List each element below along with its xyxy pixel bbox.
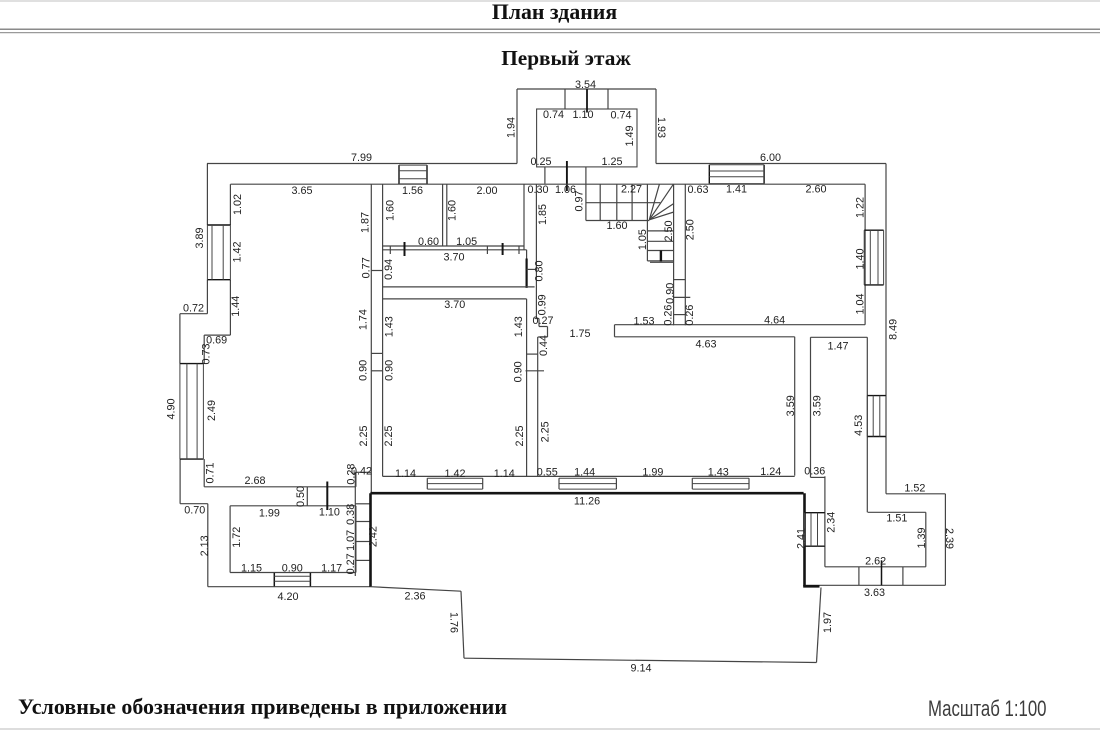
svg-text:0.70: 0.70: [184, 505, 205, 517]
wall: interior (2.68): [204, 486, 356, 488]
wall: right inner x867: [866, 337, 868, 512]
svg-text:9.14: 9.14: [630, 663, 651, 675]
svg-text:1.05: 1.05: [637, 229, 649, 250]
wall: right step out (1.52): [886, 493, 945, 495]
wall: room 1.51 bottom (2.62): [825, 566, 926, 568]
svg-text:1.72: 1.72: [231, 527, 243, 548]
svg-text:0.90: 0.90: [282, 563, 303, 575]
wall: room 1.99 bottom: [230, 572, 356, 574]
wall: room 1.51 right: [925, 512, 927, 567]
svg-text:0.36: 0.36: [804, 466, 825, 478]
stair winder diag 1: [649, 184, 659, 220]
tick: 0.50 door: [306, 487, 308, 506]
tick: porch center thick: [586, 89, 588, 113]
svg-text:1.93: 1.93: [655, 117, 667, 138]
svg-text:0.60: 0.60: [418, 236, 439, 248]
wall: room 3.70-2 top: [383, 298, 527, 300]
svg-text:0.38: 0.38: [345, 504, 357, 525]
terrace edge left (1.76): [461, 591, 464, 658]
stair mid line: [586, 202, 660, 204]
svg-text:2.34: 2.34: [826, 512, 838, 533]
svg-text:0.74: 0.74: [610, 110, 631, 122]
wall: top outer right of porch (6.00): [656, 163, 886, 165]
svg-text:0.50: 0.50: [295, 486, 307, 507]
wall: interior bottom line: [383, 475, 795, 477]
svg-text:2.25: 2.25: [383, 425, 395, 446]
wall: living left x537: [537, 337, 539, 476]
svg-text:0.90: 0.90: [358, 360, 370, 381]
svg-text:2.60: 2.60: [805, 184, 826, 196]
wall: room 2.00 right: [523, 184, 525, 250]
wall: left outer below window2: [179, 459, 181, 504]
window: top wall left (1.56 above): [398, 165, 400, 184]
wall: jog 0.42 h: [356, 471, 371, 473]
svg-text:1.10: 1.10: [572, 109, 593, 121]
wall: room 1.51 top: [868, 511, 926, 513]
svg-text:0.71: 0.71: [205, 462, 217, 483]
stair tread 2: [647, 240, 673, 242]
svg-text:2.62: 2.62: [865, 556, 886, 568]
svg-text:4.20: 4.20: [277, 591, 298, 603]
dim line x355: [354, 472, 356, 576]
svg-text:2.42: 2.42: [368, 526, 380, 547]
tick: 0.36 step: [811, 476, 825, 478]
wall: left outer lower: [207, 504, 209, 587]
wall: bottom outer left (4.20): [208, 586, 371, 588]
svg-text:4.53: 4.53: [853, 415, 865, 436]
svg-text:6.00: 6.00: [760, 152, 781, 164]
svg-text:4.90: 4.90: [166, 398, 178, 419]
wall: porch outer right: [655, 89, 657, 164]
svg-text:1.05: 1.05: [456, 236, 477, 248]
wall: left step out (0.72): [180, 313, 208, 315]
tick y353 left col: [371, 352, 382, 354]
svg-text:2.27: 2.27: [621, 184, 642, 196]
svg-text:2.36: 2.36: [404, 591, 425, 603]
svg-text:8.49: 8.49: [887, 319, 899, 340]
svg-text:Масштаб 1:100: Масштаб 1:100: [928, 696, 1047, 721]
window: south 1 (1.42): [426, 478, 428, 489]
svg-text:1.40: 1.40: [855, 248, 867, 269]
jog v x539: [538, 319, 540, 327]
wall: partition x382: [382, 184, 384, 476]
svg-text:0.27: 0.27: [532, 315, 553, 327]
wall: door jamb thick x526: [525, 259, 527, 288]
wall: inner step (0.69): [204, 334, 230, 336]
wall: room 1.47 left: [810, 337, 812, 477]
svg-text:1.99: 1.99: [259, 508, 280, 520]
wall: room 3.65 right side: [370, 184, 372, 493]
wall: left inner below window1: [229, 280, 231, 335]
wall: room 1.47 top: [811, 336, 868, 338]
window: left large (4.90): [180, 363, 204, 365]
tick bl 2: [355, 541, 370, 543]
tick rooms row d thick: [502, 243, 504, 255]
step divider: [881, 560, 883, 585]
stair riser 3: [631, 184, 633, 220]
svg-text:1.56: 1.56: [402, 185, 423, 197]
svg-text:1.44: 1.44: [574, 467, 595, 479]
wall: left outer upper: [206, 164, 208, 226]
tick y279: [674, 279, 686, 281]
terrace edge bottom (9.14): [464, 658, 817, 662]
wall thick: small bottom right: [803, 585, 819, 588]
svg-text:1.44: 1.44: [230, 296, 242, 317]
svg-text:1.02: 1.02: [232, 194, 244, 215]
svg-text:2.25: 2.25: [540, 421, 552, 442]
svg-text:2.25: 2.25: [514, 425, 526, 446]
window: south 3 (1.43): [691, 478, 693, 489]
terrace edge top (2.36): [371, 587, 462, 592]
svg-text:3.54: 3.54: [575, 79, 596, 91]
jog h y326 (0.27): [539, 326, 548, 328]
stair flight bottom: [586, 220, 649, 222]
svg-text:0.90: 0.90: [665, 283, 677, 304]
svg-text:1.14: 1.14: [395, 468, 416, 480]
svg-text:0.28: 0.28: [345, 464, 357, 485]
svg-text:3.63: 3.63: [864, 587, 885, 599]
wall: bottom outer right (3.63): [805, 584, 946, 586]
stair riser 1: [599, 184, 601, 220]
svg-text:1.07: 1.07: [345, 530, 357, 551]
svg-text:0.26: 0.26: [662, 305, 674, 326]
svg-text:4.64: 4.64: [764, 315, 785, 327]
wall: left step in (0.70): [180, 503, 208, 505]
svg-text:Условные обозначения приведены: Условные обозначения приведены в приложе…: [18, 694, 507, 719]
stair riser 4: [646, 184, 648, 220]
wall: room 2.00 left: [446, 184, 448, 246]
svg-text:0.74: 0.74: [543, 109, 564, 121]
svg-text:1.53: 1.53: [633, 316, 654, 328]
svg-text:1.47: 1.47: [827, 341, 848, 353]
tick bl 3: [355, 559, 370, 561]
stair winder diag 2: [649, 184, 673, 220]
tick rooms row b thick: [404, 242, 406, 256]
stair tread 3: [647, 250, 673, 252]
tick: porch door thick: [566, 161, 568, 191]
window: right middle (4.53): [867, 395, 886, 397]
wall: band left cap: [614, 325, 616, 337]
window: right upper (1.40): [864, 229, 883, 231]
wall: room right inner x865: [864, 184, 866, 325]
stair arrow thick: [660, 251, 662, 262]
tick: porch dim 0.74/1.10: [564, 89, 566, 109]
stair lower bottom: [647, 260, 673, 262]
tick: thick door mark: [326, 482, 328, 511]
svg-text:1.17: 1.17: [321, 563, 342, 575]
wall: top outer left of porch (7.99): [207, 163, 517, 165]
tick y270 left col: [371, 270, 382, 272]
wall: left inner upper: [229, 184, 231, 225]
stair winder diag 4: [649, 212, 674, 220]
svg-text:1.94: 1.94: [506, 117, 518, 138]
wall: left outer mid: [179, 314, 181, 364]
tick y269 right col: [527, 268, 537, 270]
svg-text:2.41: 2.41: [796, 528, 808, 549]
wall: room 1.56 right: [442, 184, 444, 246]
svg-text:7.99: 7.99: [351, 152, 372, 164]
stair riser 2: [616, 184, 618, 220]
header top hairline: [0, 0, 1100, 2]
wall: hallway bottom: [383, 286, 535, 288]
window: south 2 (1.44): [558, 478, 560, 489]
svg-text:0.55: 0.55: [537, 467, 558, 479]
wall: room 1.99 left: [229, 506, 231, 573]
stair lower bottom 2: [650, 261, 674, 263]
wall: band bottom (4.63 top): [615, 336, 795, 338]
svg-text:1.24: 1.24: [760, 466, 781, 478]
svg-text:0.26: 0.26: [684, 305, 696, 326]
svg-text:0.63: 0.63: [687, 184, 708, 196]
wall thick: terrace right: [803, 493, 806, 586]
svg-text:0.99: 0.99: [537, 294, 549, 315]
window: left upper (1.42): [207, 224, 230, 226]
svg-text:1.04: 1.04: [855, 293, 867, 314]
svg-text:1.60: 1.60: [447, 200, 459, 221]
svg-text:1.60: 1.60: [385, 200, 397, 221]
wall: left inner lower: [203, 459, 205, 487]
tick rooms row a: [389, 246, 391, 254]
svg-text:0.80: 0.80: [534, 260, 546, 281]
stair tread 1: [647, 230, 673, 232]
wall thick: terrace left: [369, 493, 372, 587]
wall: left inner mid: [203, 335, 205, 364]
svg-text:1.97: 1.97: [822, 612, 834, 633]
svg-text:1.15: 1.15: [241, 563, 262, 575]
wall: porch outer left: [516, 89, 518, 164]
wall: room 1.99 right: [355, 506, 357, 573]
svg-text:4.63: 4.63: [695, 339, 716, 351]
stair winder diag 3: [649, 204, 674, 220]
wall: interior top line: [231, 183, 866, 185]
tick y297: [674, 296, 691, 298]
svg-text:1.52: 1.52: [904, 483, 925, 495]
svg-text:2.50: 2.50: [663, 220, 675, 241]
svg-text:1.76: 1.76: [447, 612, 459, 633]
svg-text:2.39: 2.39: [943, 528, 955, 549]
svg-text:0.72: 0.72: [183, 303, 204, 315]
header double grey rule: [0, 28, 1100, 30]
svg-text:3.89: 3.89: [194, 227, 206, 248]
svg-text:0.44: 0.44: [538, 335, 550, 356]
wall thick: south 11.26: [370, 492, 803, 495]
wall: stair right x673: [673, 184, 675, 325]
wall: right outer (8.49): [885, 164, 887, 494]
step rect right: [902, 567, 904, 586]
tick bl 0: [355, 503, 370, 505]
svg-text:3.70: 3.70: [444, 299, 465, 311]
tick y314: [674, 314, 686, 316]
wall: hall right x536: [535, 184, 537, 318]
wall: right outer lower (2.39): [944, 494, 946, 586]
svg-text:11.26: 11.26: [574, 496, 600, 508]
svg-text:1.85: 1.85: [537, 204, 549, 225]
stair lower flight left: [646, 220, 648, 261]
svg-text:0.27: 0.27: [345, 553, 357, 574]
wall: rooms 1.56/2.00 bottom: [382, 245, 524, 247]
svg-text:0.73: 0.73: [201, 343, 213, 364]
svg-text:1.39: 1.39: [916, 527, 928, 548]
svg-text:1.25: 1.25: [601, 156, 622, 168]
svg-text:3.59: 3.59: [811, 395, 823, 416]
svg-text:1.51: 1.51: [886, 513, 907, 525]
tick y371 right col: [526, 370, 545, 372]
svg-text:2.50: 2.50: [685, 219, 697, 240]
svg-text:1.99: 1.99: [642, 467, 663, 479]
svg-text:0.77: 0.77: [360, 257, 372, 278]
svg-text:1.22: 1.22: [855, 197, 867, 218]
window: top wall right (1.41): [708, 165, 710, 184]
svg-text:3.59: 3.59: [785, 395, 797, 416]
window: right lower (2.34): [805, 512, 825, 514]
svg-text:1.10: 1.10: [319, 507, 340, 519]
svg-text:1.75: 1.75: [569, 328, 590, 340]
svg-text:0.94: 0.94: [383, 259, 395, 280]
jog v x547: [547, 327, 549, 338]
svg-text:3.70: 3.70: [443, 252, 464, 264]
tick y371 left col: [371, 370, 382, 372]
wall: room left x685: [684, 184, 686, 325]
terrace edge right (1.97): [817, 588, 822, 663]
svg-text:0.30: 0.30: [527, 184, 548, 196]
tick: porch dim 1.10/0.74: [607, 89, 609, 109]
svg-text:1.43: 1.43: [708, 467, 729, 479]
svg-text:1.42: 1.42: [232, 241, 244, 262]
wall: room 3.70-2 right: [526, 299, 528, 477]
svg-text:3.65: 3.65: [291, 185, 312, 197]
footer hairline: [0, 728, 1100, 730]
svg-text:0.25: 0.25: [530, 156, 551, 168]
svg-text:1.41: 1.41: [726, 184, 747, 196]
jog h y337: [538, 336, 548, 338]
porch inner room rectangle: [537, 109, 637, 167]
wall: room 4.63 right: [794, 337, 796, 476]
svg-text:Первый этаж: Первый этаж: [501, 46, 631, 70]
svg-text:1.43: 1.43: [383, 316, 395, 337]
tick rooms row c: [486, 246, 488, 254]
wall: left outer below window1: [206, 280, 208, 314]
tick y354 right col: [527, 353, 538, 355]
wall: band top (4.64): [615, 324, 866, 326]
svg-text:1.49: 1.49: [624, 125, 636, 146]
svg-text:2.00: 2.00: [476, 185, 497, 197]
svg-text:План здания: План здания: [492, 0, 617, 24]
wall: jog 0.28 v: [355, 472, 357, 487]
svg-text:0.97: 0.97: [574, 190, 586, 211]
svg-text:1.87: 1.87: [360, 212, 372, 233]
window: bottom-left (0.90): [273, 573, 275, 586]
wall: room 1.99 top: [230, 505, 356, 507]
wall: x526 thin: [526, 250, 528, 259]
svg-text:1.60: 1.60: [606, 220, 627, 232]
svg-text:2.49: 2.49: [206, 400, 218, 421]
svg-text:2.25: 2.25: [358, 425, 370, 446]
jog h y318: [535, 318, 539, 320]
wall: porch outer top (3.54): [517, 88, 656, 90]
wall: x825: [824, 476, 826, 567]
svg-text:2.13: 2.13: [199, 535, 211, 556]
svg-text:2.68: 2.68: [244, 475, 265, 487]
svg-text:1.74: 1.74: [358, 309, 370, 330]
svg-text:0.90: 0.90: [513, 361, 525, 382]
tick: porch 0.25: [544, 167, 546, 184]
wall: hallway top: [383, 249, 527, 251]
svg-text:1.43: 1.43: [513, 316, 525, 337]
svg-text:0.90: 0.90: [383, 360, 395, 381]
tick rooms row e: [518, 246, 520, 254]
tick bl 1: [355, 521, 370, 523]
svg-text:1.14: 1.14: [494, 468, 515, 480]
svg-text:1.42: 1.42: [444, 468, 465, 480]
step rect left: [858, 567, 860, 586]
stair: left edge / porch tick: [585, 167, 587, 221]
